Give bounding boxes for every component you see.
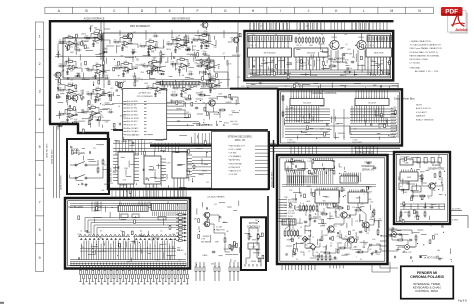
svg-text:E2: E2 [100, 231, 102, 233]
capacitor [319, 239, 323, 242]
svg-text:7: 7 [39, 200, 41, 204]
svg-text:2N3904: 2N3904 [60, 121, 66, 123]
svg-text:47p: 47p [149, 143, 152, 145]
svg-text:R44: R44 [113, 172, 116, 174]
svg-text:DS1: DS1 [93, 76, 96, 78]
svg-text:-5: -5 [409, 159, 411, 161]
output jack J21 [405, 245, 415, 250]
resistor [319, 37, 321, 44]
resistor divider R49 [209, 72, 216, 84]
svg-text:+5: +5 [299, 116, 301, 118]
op-amp stage U25 [172, 81, 192, 97]
resistor [248, 233, 250, 241]
svg-text:MIDI: MIDI [368, 199, 372, 201]
Adobe PDF icon red label [441, 7, 463, 16]
clock top parts row [417, 158, 441, 164]
svg-text:DS1: DS1 [101, 117, 104, 119]
wires decoders down to keyboard [120, 178, 184, 197]
op-amp stage U22 [58, 83, 78, 99]
svg-text:INCLUDED: C9000: INCLUDED: C9000 [410, 59, 429, 61]
resistor [421, 174, 423, 182]
svg-text:• ADSR REQ: • ADSR REQ [228, 159, 240, 162]
svg-text:U16: U16 [70, 71, 73, 73]
svg-text:2N3904: 2N3904 [358, 37, 364, 39]
svg-text:Adobe: Adobe [455, 27, 468, 32]
keyboard top feed wires [70, 202, 186, 212]
capacitor C35 [203, 31, 209, 36]
svg-text:J: J [308, 9, 310, 13]
resistor [321, 255, 323, 262]
resistor [322, 37, 324, 44]
transistor [203, 212, 210, 218]
diode CR47 [159, 71, 165, 75]
svg-text:U10: U10 [70, 47, 73, 49]
svg-text:-5: -5 [389, 228, 391, 230]
wire bundle and parts — timer top row [286, 157, 346, 175]
svg-text:(2x100nF MAX +5V SUPPLY.): (2x100nF MAX +5V SUPPLY.) [410, 51, 439, 54]
svg-text:2N3904: 2N3904 [107, 183, 113, 185]
op-amp stage U18 [114, 61, 134, 77]
svg-text:1.04: 1.04 [297, 60, 300, 62]
resistor [357, 251, 365, 253]
transistor Q53 [70, 94, 81, 103]
svg-text:R × 6: R × 6 [300, 202, 304, 205]
op-amp stage U17 [86, 63, 106, 79]
wire bundle and parts — timer interior [286, 186, 382, 258]
svg-text:CR3: CR3 [163, 244, 166, 246]
svg-text:• LED × DATA: • LED × DATA [228, 148, 242, 151]
ground [294, 252, 297, 255]
resistor [224, 237, 226, 244]
capacitor C56 [73, 119, 79, 124]
svg-text:220p: 220p [204, 31, 208, 33]
svg-text:C53: C53 [366, 233, 369, 235]
capacitor C42 [202, 51, 208, 56]
resistor [325, 255, 327, 262]
central region right border pair [268, 131, 270, 190]
svg-text:• KYBD MUX: • KYBD MUX [228, 167, 241, 169]
svg-text:DS1: DS1 [370, 202, 373, 204]
sparse wires right of keyboard outputs [195, 262, 239, 281]
svg-text:TP1: TP1 [284, 86, 287, 88]
svg-text:NOTE: NOTE [416, 105, 423, 107]
channel control left column parts [282, 95, 284, 118]
svg-text:A6 ▸ D6 RDY: A6 ▸ D6 RDY [127, 120, 139, 123]
svg-text:CR3: CR3 [177, 120, 180, 122]
svg-text:A8 ▸ CS0 A15: A8 ▸ CS0 A15 [127, 127, 139, 130]
transistor [355, 40, 366, 49]
resistor [171, 94, 179, 96]
motion pot P1 [248, 233, 252, 241]
clock output resistor row [400, 211, 426, 218]
op-amp stage U14 [166, 37, 186, 53]
resistor divider R43 [208, 56, 215, 68]
svg-text:47p: 47p [352, 57, 355, 59]
op-amp stage U13 [139, 39, 159, 55]
svg-text:6: 6 [39, 173, 41, 177]
svg-text:Q7: Q7 [176, 68, 178, 70]
svg-text:Q7: Q7 [365, 243, 367, 245]
svg-text:Q7: Q7 [141, 79, 143, 81]
svg-text:47p: 47p [135, 250, 138, 252]
resistor [316, 205, 318, 212]
svg-text:2 CUR: 2 CUR [216, 227, 223, 229]
capacitor [351, 61, 355, 64]
svg-text:Q58: Q58 [208, 21, 211, 23]
svg-text:680: 680 [121, 55, 124, 57]
capacitor [401, 189, 405, 192]
svg-text:CR36: CR36 [205, 43, 209, 45]
channel interface right comb [367, 36, 392, 76]
Adobe PDF icon page [448, 11, 468, 34]
wires cluster [170, 101, 184, 106]
svg-text:DS1: DS1 [151, 239, 154, 241]
capacitor [212, 251, 216, 254]
resistor [317, 255, 319, 262]
motion wires top [249, 228, 258, 232]
svg-text:G: G [224, 9, 227, 13]
svg-text:• SW STROBE: • SW STROBE [228, 163, 242, 165]
svg-text:CV OUT: CV OUT [390, 229, 398, 231]
foot switch SW1 [75, 160, 98, 166]
op-amp stage U27 [58, 107, 78, 123]
wire bundle and parts — channel interface left lower [250, 61, 293, 79]
svg-text:+5: +5 [362, 116, 364, 118]
svg-text:2N3904: 2N3904 [331, 37, 337, 39]
resistor [329, 255, 331, 262]
bus corridor wires [113, 143, 400, 151]
transformer coil [146, 70, 165, 71]
svg-text:TO CALCULATING CAPACITOR: TO CALCULATING CAPACITOR [410, 44, 442, 47]
svg-text:U26: U26 [213, 89, 216, 91]
svg-text:C12: C12 [132, 76, 135, 78]
svg-text:A7 ▸ D7 SO: A7 ▸ D7 SO [127, 123, 138, 126]
transistor [361, 222, 369, 228]
svg-text:680: 680 [437, 250, 440, 252]
diode CR55 [95, 117, 101, 121]
IC [248, 48, 292, 57]
svg-text:220p: 220p [59, 64, 63, 66]
resistor [282, 111, 284, 118]
resistor [199, 94, 207, 96]
op-amp stage U11 [84, 31, 104, 47]
resistor divider R46 [134, 74, 141, 86]
timer diode diamond D2 [310, 244, 316, 250]
external wires [388, 236, 416, 251]
svg-text:47p: 47p [82, 79, 85, 81]
foot switch wires [70, 164, 76, 166]
svg-text:• GATE4 OUT: • GATE4 OUT [228, 169, 242, 172]
resistor [282, 95, 284, 102]
resistor [219, 109, 227, 111]
svg-text:680: 680 [323, 200, 326, 202]
svg-text:74LS? DRB: 74LS? DRB [352, 142, 362, 144]
timer mid IC U53 [315, 188, 339, 206]
svg-text:220: 220 [330, 61, 333, 63]
svg-text:ALCHEMY # XX — CXX: ALCHEMY # XX — CXX [415, 70, 439, 73]
svg-text:.01: .01 [334, 226, 336, 228]
main region outer border (top and left) [50, 21, 394, 124]
svg-text:CH1: CH1 [284, 205, 287, 207]
resistor [299, 37, 301, 44]
svg-text:.01: .01 [96, 97, 98, 99]
svg-text:A4: A4 [140, 230, 142, 233]
timer diode diamond D1 [302, 236, 308, 242]
svg-text:MICROPRO BUS: MICROPRO BUS [355, 144, 376, 148]
keyboard feed drop wires from decoder area [112, 191, 186, 199]
svg-text:680: 680 [201, 73, 204, 75]
op-amp stage U12 [113, 35, 133, 51]
timer extra wires [286, 206, 380, 258]
hold-off bus line [113, 129, 268, 131]
transistor [326, 226, 334, 232]
svg-text:2 MHZ: 2 MHZ [452, 220, 459, 222]
svg-text:+5: +5 [136, 58, 138, 60]
timer interface block border [277, 155, 388, 264]
svg-text:74LS374: 74LS374 [307, 53, 316, 55]
channel interface bottom bus lines [250, 69, 390, 71]
svg-text:μP-6502 SERIES: μP-6502 SERIES [208, 196, 225, 198]
keyboard top small boxes [121, 214, 166, 220]
op-amp stage U28 [81, 105, 101, 121]
svg-text:TP1: TP1 [60, 56, 63, 58]
IC [366, 48, 392, 57]
svg-text:1N914: 1N914 [81, 34, 86, 36]
bus line under channel control [150, 144, 278, 146]
svg-text:2N3904: 2N3904 [214, 114, 220, 116]
timer mid IC U54 [348, 190, 368, 204]
svg-text:2N3904: 2N3904 [300, 162, 306, 164]
resistor [324, 252, 332, 254]
svg-text:CPU INTERFACE: CPU INTERFACE [137, 95, 154, 98]
svg-text:TP1: TP1 [93, 148, 96, 150]
IC U30 with pin fan [113, 152, 139, 184]
transistor [328, 40, 339, 49]
timer top chip row IC U52 [340, 174, 358, 184]
resistor [415, 235, 417, 242]
capacitor C37 [76, 47, 82, 52]
channel control block border [278, 89, 402, 145]
svg-text:2N3904: 2N3904 [342, 238, 348, 240]
svg-text:47p: 47p [59, 88, 62, 90]
svg-text:2N3904: 2N3904 [196, 93, 202, 95]
clock divider chain combs [400, 204, 445, 209]
resistor [316, 37, 318, 44]
keyboard output wires with terminating resistors [79, 266, 188, 284]
svg-text:TRIG: TRIG [376, 254, 381, 256]
timer extra parts row [299, 205, 318, 212]
svg-text:.01: .01 [205, 63, 207, 65]
svg-text:TP1: TP1 [354, 246, 357, 248]
channel control cross wires [283, 95, 398, 138]
channel control IC U120 with pins [290, 97, 324, 106]
capacitor C52 [95, 97, 101, 102]
svg-text:CR3: CR3 [434, 234, 437, 236]
svg-text:• CLK DIV: • CLK DIV [228, 174, 238, 176]
svg-text:• SPARE CAPACITOR: • SPARE CAPACITOR [410, 40, 432, 43]
svg-text:47p: 47p [400, 186, 403, 188]
resistor [97, 167, 99, 174]
wire bundle and parts — right of keyboard [194, 201, 240, 266]
svg-text:2N3904: 2N3904 [121, 141, 127, 143]
svg-text:9: 9 [39, 256, 41, 260]
svg-text:Q7: Q7 [430, 225, 432, 227]
svg-text:47p: 47p [147, 86, 150, 88]
svg-text:CR13: CR13 [336, 217, 340, 219]
svg-text:74LS259: 74LS259 [368, 102, 377, 104]
svg-text:WRITE5: WRITE5 [391, 125, 397, 127]
svg-text:Fig 9-8: Fig 9-8 [458, 299, 467, 303]
svg-text:SER OUT: SER OUT [330, 259, 338, 261]
resistor [309, 205, 311, 212]
keyboard right diode column [176, 213, 187, 241]
resistor [355, 209, 363, 211]
svg-text:47p: 47p [102, 105, 105, 107]
svg-text:C12: C12 [306, 172, 309, 174]
channel interface left lower comb [249, 57, 288, 75]
timer resistor stack left [284, 230, 299, 238]
stream decoder box output comb [255, 146, 269, 174]
vertical trunk wires [101, 22, 238, 88]
svg-text:1N914: 1N914 [347, 68, 352, 70]
svg-text:20.2 KHZ: 20.2 KHZ [452, 208, 461, 210]
keyboard block border [65, 198, 190, 269]
svg-text:1N914: 1N914 [320, 225, 325, 227]
svg-text:10K ×8: 10K ×8 [296, 44, 301, 47]
svg-text:R44: R44 [141, 72, 144, 74]
resistor module hatched strip [160, 82, 200, 88]
wire bundle and parts — analog right sparse [213, 33, 245, 88]
keyboard matrix drop wires [81, 241, 175, 261]
timer output stubs right [380, 236, 387, 251]
resistor divider R30 [75, 38, 81, 50]
svg-text:G3: G3 [120, 231, 122, 233]
svg-text:HOLD OFF BUS: HOLD OFF BUS [271, 171, 273, 187]
svg-text:SN 74LS244: SN 74LS244 [264, 53, 277, 55]
svg-text:CR3: CR3 [80, 91, 83, 93]
svg-text:.1: .1 [338, 209, 339, 211]
svg-text:D0: D0 [252, 34, 254, 36]
channel interface mid resistor row [295, 37, 324, 44]
crystal Y1 box [400, 159, 413, 165]
svg-text:U12: U12 [132, 134, 135, 136]
diode CR51 [107, 92, 113, 96]
svg-text:680: 680 [433, 190, 436, 192]
clock mid row boxes [399, 183, 421, 192]
svg-text:2N3904: 2N3904 [232, 124, 238, 126]
op-amp stage U20 [170, 57, 190, 73]
svg-text:1N914: 1N914 [224, 123, 229, 125]
resistor [377, 229, 379, 237]
svg-text:5: 5 [39, 145, 41, 149]
op-amp stage U19 [142, 59, 162, 75]
svg-text:680: 680 [136, 60, 139, 62]
channel interface transistor drop wires [331, 33, 365, 70]
row ruler strip [35, 22, 43, 271]
wire bundle and parts — analog section [56, 34, 211, 89]
capacitor [367, 162, 371, 165]
resistor [231, 245, 233, 252]
svg-text:DATA SEL BUS: DATA SEL BUS [46, 143, 49, 158]
svg-text:1.04: 1.04 [262, 60, 265, 62]
resistor divider R40 [160, 50, 166, 62]
channel interface left resistor array comb [248, 36, 292, 69]
svg-text:CTS: CTS [201, 239, 206, 241]
svg-text:2 RPM: 2 RPM [56, 75, 62, 77]
motion pot wiper box [248, 243, 259, 249]
timer to jacks connecting wires [372, 230, 412, 272]
svg-text:10K × 13: 10K × 13 [250, 44, 257, 47]
svg-text:10K ×8: 10K ×8 [369, 44, 374, 47]
svg-text:Q7: Q7 [104, 164, 106, 166]
svg-text:10uF: 10uF [132, 49, 136, 51]
timer mid horizontal bus [282, 185, 376, 187]
svg-text:.01: .01 [59, 40, 61, 42]
op-amp stage U16 [58, 59, 78, 75]
capacitor C54 [108, 109, 114, 114]
capacitor [359, 231, 363, 234]
svg-text:C12: C12 [339, 166, 342, 168]
svg-text:DATA 4VL: DATA 4VL [416, 115, 426, 118]
svg-text:SERIAL I/O: SERIAL I/O [362, 169, 374, 172]
svg-text:WRITE2: WRITE2 [391, 116, 397, 118]
svg-text:STROBE: STROBE [391, 133, 399, 135]
svg-text:1: 1 [39, 34, 41, 38]
capacitor C48 [188, 71, 194, 76]
svg-text:CR3: CR3 [115, 142, 118, 144]
svg-text:8: 8 [39, 228, 41, 232]
svg-text:.1: .1 [355, 256, 356, 258]
svg-text:MIDI INCREMENT: MIDI INCREMENT [130, 25, 150, 28]
svg-text:WRITE3: WRITE3 [391, 119, 397, 121]
svg-text:TP1: TP1 [378, 127, 381, 129]
op-amp stage U24 [146, 81, 166, 97]
svg-text:220: 220 [438, 179, 441, 181]
capacitor [342, 54, 346, 57]
svg-text:4 GO ALFT: 4 GO ALFT [416, 111, 428, 114]
resistor [185, 98, 193, 100]
svg-text:.1: .1 [98, 165, 99, 167]
resistor [303, 205, 305, 212]
diode CR41 [185, 47, 191, 51]
svg-text:DATA SEL BUS: DATA SEL BUS [51, 149, 54, 164]
clock IC U60 [400, 170, 418, 182]
wires from decoders to stream box [192, 157, 211, 174]
corridor border down to keyboard level [267, 196, 269, 262]
clock generators inner border [396, 154, 447, 221]
analog cluster sub-block border [63, 38, 103, 78]
svg-text:Q7: Q7 [346, 44, 348, 46]
svg-text:A5 ▸ D5 SYNC: A5 ▸ D5 SYNC [127, 117, 140, 120]
svg-text:SYNC: SYNC [288, 216, 294, 218]
svg-text:C52: C52 [352, 207, 355, 209]
transistor Q58 [200, 21, 211, 30]
op-amp stage U10 [58, 35, 78, 51]
ground [334, 256, 337, 259]
clock generators block border [394, 152, 450, 224]
svg-text:100: 100 [345, 63, 348, 65]
resistor [424, 211, 426, 218]
resistor [313, 205, 315, 212]
wire bundle and parts — external output parts [389, 225, 452, 262]
svg-text:RELEASE: RELEASE [201, 241, 211, 244]
resistor [297, 230, 299, 238]
channel control inner border [281, 92, 400, 143]
svg-text:• KBD SCAN OUT: • KBD SCAN OUT [228, 145, 246, 148]
svg-text:47p: 47p [320, 121, 323, 123]
svg-text:7400 DRB: 7400 DRB [287, 142, 296, 144]
motion connector stubs [245, 249, 261, 267]
